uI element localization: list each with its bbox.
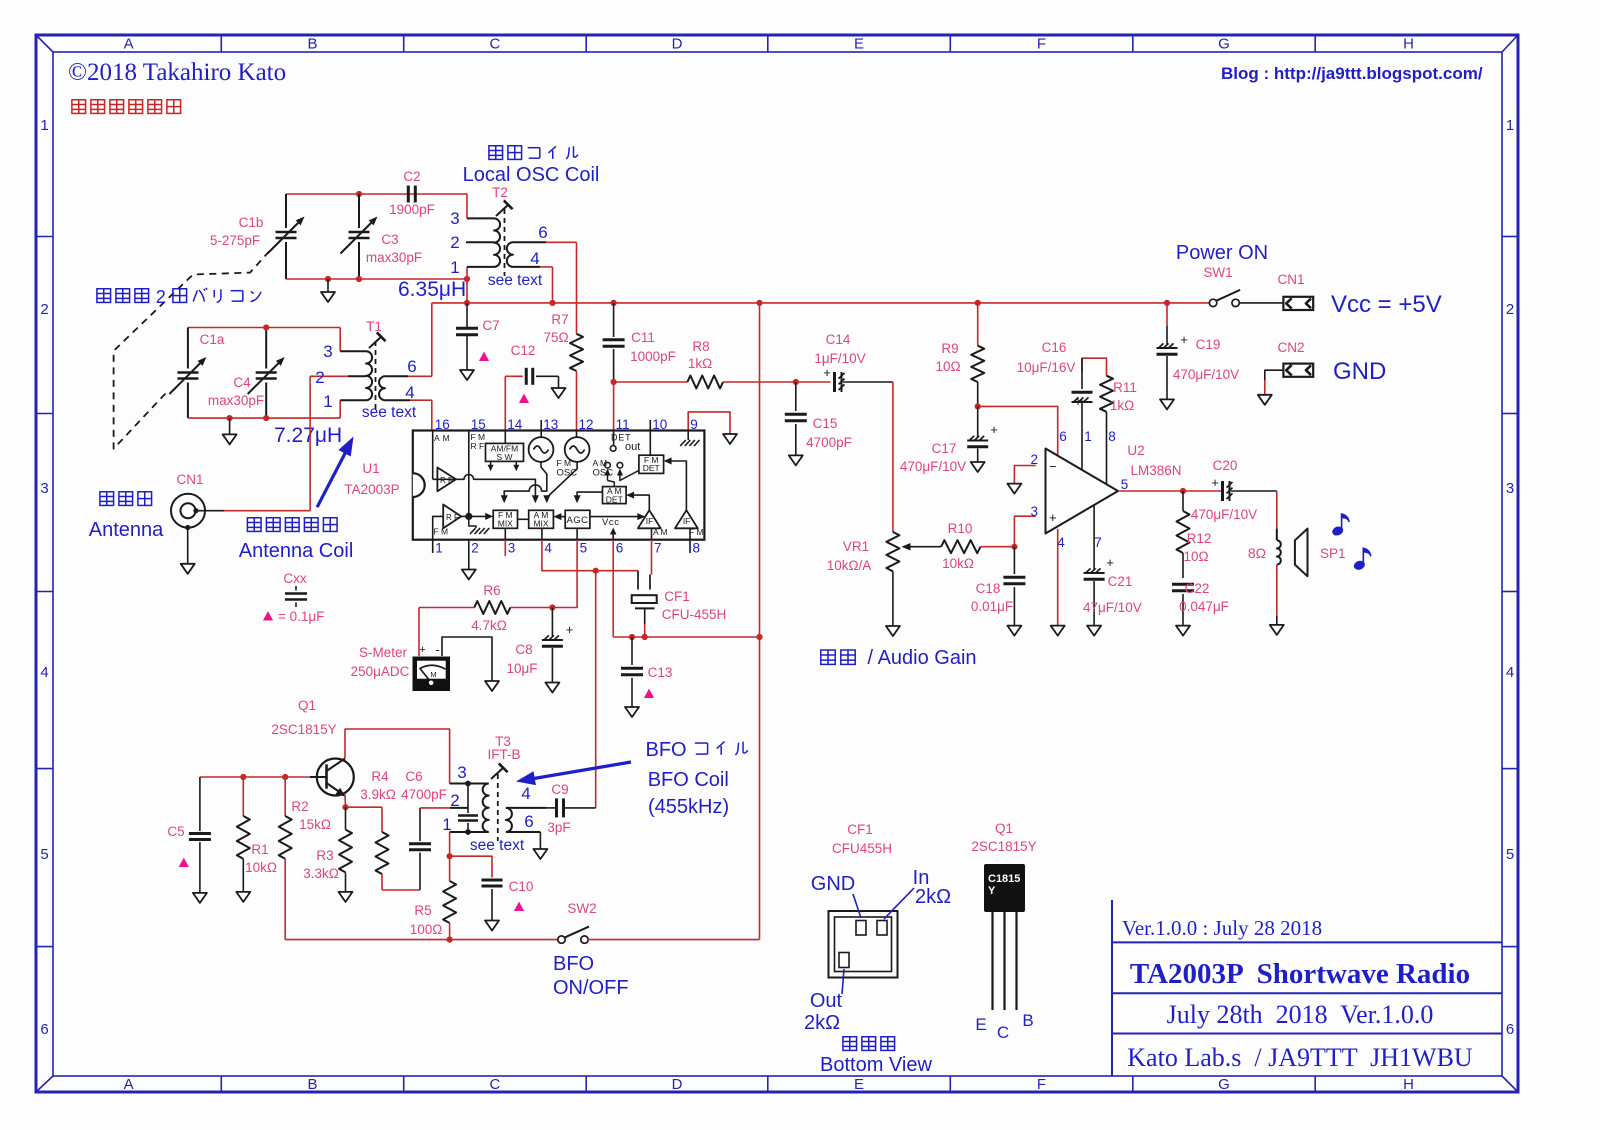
svg-text:C8: C8 <box>515 642 532 657</box>
svg-text:H: H <box>1403 1076 1414 1093</box>
wire osc tank bottom <box>286 278 467 280</box>
svg-text:3.9kΩ: 3.9kΩ <box>360 787 396 802</box>
capacitor C17 <box>900 406 998 474</box>
svg-text:R6: R6 <box>483 583 500 598</box>
svg-text:0.047μF: 0.047μF <box>1179 599 1229 614</box>
resistor R7 <box>543 312 583 431</box>
wire base rail <box>200 776 310 778</box>
svg-text:U2: U2 <box>1127 443 1144 458</box>
wire C6 to T3 tap <box>420 807 450 809</box>
svg-text:C16: C16 <box>1042 340 1067 355</box>
svg-text:R4: R4 <box>371 769 389 784</box>
svg-text:GND: GND <box>811 873 855 895</box>
svg-text:Vcc = +5V: Vcc = +5V <box>1331 291 1442 318</box>
wire antenna tank top <box>188 327 340 329</box>
potentiometer VR1 <box>827 532 941 573</box>
svg-text:VR1: VR1 <box>843 539 869 554</box>
junction rail T2pin4 <box>549 300 555 306</box>
IC pin15 internal lead <box>468 431 470 517</box>
svg-text:+: + <box>566 622 574 637</box>
junction ant tank top C4 <box>263 324 269 330</box>
wire T2 pin4 to vcc rail <box>540 266 553 268</box>
junction ant tank bottom C4 <box>263 415 269 421</box>
wire vcc branch horizontal <box>613 636 759 638</box>
CF1 bottom view diagram <box>829 822 898 978</box>
label twin variable capacitor <box>97 289 111 303</box>
ground CN2 <box>1258 395 1272 405</box>
speaker SP1 <box>1248 529 1346 577</box>
svg-text:IF: IF <box>683 516 691 526</box>
wire R2 to BFO rail <box>284 859 286 940</box>
svg-text:M: M <box>430 670 436 679</box>
capacitor C11 <box>603 303 676 382</box>
wire IC pin4 to CF1 node <box>542 540 638 571</box>
capacitor C7 <box>456 303 500 380</box>
capacitor C19 <box>1157 303 1240 410</box>
svg-text:7: 7 <box>1094 535 1102 550</box>
junction osc tank top at C3 <box>356 191 362 197</box>
svg-text:−: − <box>1049 459 1057 474</box>
svg-text:(455kHz): (455kHz) <box>648 796 729 818</box>
IC pin1 internal lead <box>433 516 444 539</box>
svg-text:2: 2 <box>40 301 48 318</box>
IC pin2 ground <box>468 540 470 570</box>
IC arrow AGC to AM MIX <box>559 516 565 518</box>
IC pin16 internal lead <box>432 431 434 480</box>
resistor R1 <box>236 777 277 902</box>
svg-text:470μF/10V: 470μF/10V <box>900 459 966 474</box>
junction R5 bottom rail <box>447 937 453 943</box>
svg-text:5: 5 <box>40 846 48 863</box>
junction emitter node <box>342 804 348 810</box>
junction vcc branch CF1 <box>642 634 648 640</box>
switch SW2 <box>558 901 597 943</box>
svg-text:10kΩ: 10kΩ <box>942 556 974 571</box>
wire T1 pin1 to tank bottom <box>339 400 341 418</box>
wire antenna to T1 pin2 <box>196 510 224 512</box>
svg-text:2: 2 <box>315 368 324 387</box>
svg-text:A: A <box>124 1076 134 1093</box>
junction pin4 node BFO feed <box>593 568 599 574</box>
IC junction FM node <box>461 515 487 517</box>
svg-text:GND: GND <box>1333 358 1386 385</box>
svg-text:10kΩ: 10kΩ <box>245 860 277 875</box>
svg-text:IFT-B: IFT-B <box>488 747 521 762</box>
IC wire FM MIX to AM MIX <box>518 518 529 520</box>
svg-text:A: A <box>124 36 134 53</box>
svg-text:6: 6 <box>524 812 533 831</box>
resistor R3 <box>303 807 352 902</box>
svg-text:TA2003P: TA2003P <box>344 482 399 497</box>
svg-text:+: + <box>823 365 831 380</box>
svg-text:G: G <box>1218 1076 1230 1093</box>
variable capacitor C1b <box>210 194 305 279</box>
IC pin13 internal lead <box>540 431 542 438</box>
svg-text:BFO: BFO <box>646 739 693 761</box>
svg-text:6: 6 <box>538 223 547 242</box>
IC pin13 stub <box>540 420 542 431</box>
ground S-meter <box>485 681 499 691</box>
wire rail left drop to T1 pin6 <box>431 303 433 376</box>
svg-text:2SC1815Y: 2SC1815Y <box>271 722 336 737</box>
IC FM OSC circle <box>529 437 554 462</box>
svg-text:R2: R2 <box>291 799 308 814</box>
svg-text:+: + <box>1049 510 1057 525</box>
svg-text:10μF: 10μF <box>506 661 537 676</box>
label Local OSC Coil <box>489 146 503 160</box>
svg-text:3: 3 <box>450 209 459 228</box>
junction rail C19 <box>1164 300 1170 306</box>
resistor R6 <box>419 583 552 633</box>
IC pin12 internal lead <box>576 431 578 438</box>
wire T3 pin1 down <box>449 832 451 856</box>
trimmer capacitor C4 <box>208 328 285 419</box>
wire C11 to IC pin11 <box>613 382 615 431</box>
svg-text:CF1: CF1 <box>847 822 873 837</box>
label antenna jp <box>100 492 114 506</box>
svg-text:3: 3 <box>1506 480 1514 497</box>
svg-text:Q1: Q1 <box>298 698 316 713</box>
junction rail R9 <box>975 300 981 306</box>
IC pin8 stub <box>689 540 691 553</box>
IC wire AM OSC to AM MIX <box>547 462 577 498</box>
IC DET out switch <box>605 431 641 487</box>
svg-text:1900pF: 1900pF <box>389 202 435 217</box>
svg-text:14: 14 <box>507 417 523 432</box>
svg-text:= 0.1μF: = 0.1μF <box>278 609 324 624</box>
svg-text:C14: C14 <box>826 332 851 347</box>
IC FM DET box <box>639 455 664 473</box>
IC U1 TA2003P body <box>413 431 705 540</box>
wire IC pin7 to CF1 <box>651 540 653 575</box>
wire U2 pin5 to C20 <box>1118 490 1222 492</box>
wire long vertical vcc branch <box>759 303 761 637</box>
svg-text:3pF: 3pF <box>547 820 570 835</box>
wire IC pin9 to ground <box>688 412 730 434</box>
junction vcc branch long vertical <box>756 634 762 640</box>
IC AGC box <box>565 510 590 528</box>
junction R6 C8 node <box>549 604 555 610</box>
svg-text:0.01μF: 0.01μF <box>971 599 1013 614</box>
IC pin8 internal lead <box>689 528 691 539</box>
svg-text:R9: R9 <box>941 341 958 356</box>
svg-text:4: 4 <box>40 664 48 681</box>
variable capacitor C1a <box>169 328 224 419</box>
svg-text:3: 3 <box>457 763 466 782</box>
svg-text:6: 6 <box>40 1021 48 1038</box>
svg-text:7.27μH: 7.27μH <box>274 424 342 447</box>
wire T1 pin4 to IC pin16 <box>410 399 432 401</box>
svg-text:/ Audio Gain: / Audio Gain <box>862 647 977 669</box>
svg-text:+: + <box>990 422 998 437</box>
IC pin3 internal lead <box>504 528 506 539</box>
svg-text:+: + <box>1180 332 1188 347</box>
music note 1 <box>1333 514 1349 535</box>
dashed gang line <box>114 251 270 449</box>
IC wire RF1 out with hops <box>433 474 536 497</box>
title block <box>1112 900 1502 1076</box>
svg-text:1μF/10V: 1μF/10V <box>814 351 865 366</box>
IC wire IF AM to AM DET <box>632 495 649 510</box>
transformer T3 <box>442 734 546 854</box>
svg-text:C22: C22 <box>1185 581 1210 596</box>
capacitor C8 <box>506 608 573 693</box>
capacitor C2 <box>389 169 435 217</box>
svg-text:E: E <box>975 1015 986 1034</box>
svg-text:R11: R11 <box>1113 380 1137 395</box>
wire C20 to speaker <box>1276 491 1278 529</box>
svg-text:B: B <box>1022 1011 1033 1030</box>
junction C15 node <box>793 379 799 385</box>
svg-text:C9: C9 <box>551 782 568 797</box>
svg-text:OSC: OSC <box>593 468 614 479</box>
junction osc tank bottom at C3 <box>356 276 362 282</box>
IC pin7 internal lead <box>651 528 653 539</box>
svg-text:1: 1 <box>40 117 48 134</box>
svg-text:10: 10 <box>652 417 667 432</box>
svg-text:4700pF: 4700pF <box>401 787 447 802</box>
wire node to C10 <box>450 856 492 877</box>
svg-text:T2: T2 <box>492 185 508 200</box>
svg-text:15kΩ: 15kΩ <box>299 817 331 832</box>
svg-text:R F: R F <box>446 513 459 522</box>
capacitor C14 <box>796 332 893 392</box>
svg-text:1000pF: 1000pF <box>630 349 676 364</box>
svg-text:C3: C3 <box>381 232 398 247</box>
junction ant tank bottom gnd <box>227 415 233 421</box>
svg-text:C13: C13 <box>648 665 673 680</box>
svg-text:BFO: BFO <box>553 953 594 975</box>
svg-text:Y: Y <box>988 885 996 897</box>
svg-text:1: 1 <box>323 392 332 411</box>
svg-text:R F: R F <box>471 441 485 451</box>
svg-text:A M: A M <box>653 527 668 537</box>
svg-text:R5: R5 <box>414 903 431 918</box>
no-reproduction kanji note <box>72 100 86 114</box>
junction tank bottom right <box>464 276 470 282</box>
svg-text:TA2003P Shortwave Radio: TA2003P Shortwave Radio <box>1130 958 1470 990</box>
wire IC pin6 to vcc branch <box>612 540 614 637</box>
svg-text:1: 1 <box>1084 429 1092 444</box>
svg-text:4: 4 <box>544 541 552 556</box>
svg-text:R1: R1 <box>251 842 268 857</box>
svg-text:8Ω: 8Ω <box>1248 545 1266 561</box>
connector CN1 antenna jack <box>171 472 205 530</box>
junction base R2 <box>282 774 288 780</box>
svg-text:11: 11 <box>616 417 630 432</box>
svg-text:2SC1815Y: 2SC1815Y <box>971 839 1036 854</box>
svg-text:10μF/16V: 10μF/16V <box>1017 360 1076 375</box>
svg-text:Bottom View: Bottom View <box>820 1054 932 1076</box>
capacitor C10 <box>482 879 534 931</box>
op-amp U2 LM386N <box>1031 429 1182 550</box>
svg-text:Ver.1.0.0 : July 28 2018: Ver.1.0.0 : July 28 2018 <box>1122 916 1322 940</box>
ground speaker <box>1270 625 1284 635</box>
svg-text:470μF/10V: 470μF/10V <box>1173 367 1239 382</box>
svg-text:470μF/10V: 470μF/10V <box>1191 507 1257 522</box>
svg-text:C18: C18 <box>976 581 1001 596</box>
svg-text:1: 1 <box>450 258 459 277</box>
IC IF AM triangle <box>638 510 661 528</box>
trimmer capacitor C3 <box>341 194 423 279</box>
ground osc tank <box>327 279 329 292</box>
wire osc tank top <box>286 193 467 195</box>
wire R9 node to U2 pin6 <box>978 406 1058 455</box>
svg-text:©2018 Takahiro Kato: ©2018 Takahiro Kato <box>68 59 286 86</box>
svg-text:12: 12 <box>579 417 594 432</box>
svg-text:C5: C5 <box>167 824 184 839</box>
IC wire FM OSC to FM MIX <box>504 462 547 497</box>
wire R6 to S-meter <box>418 608 420 657</box>
svg-text:C7: C7 <box>482 318 499 333</box>
svg-text:10Ω: 10Ω <box>935 359 960 374</box>
capacitor C18 <box>971 547 1026 636</box>
svg-text:A M: A M <box>434 433 450 443</box>
wire IC pin5 to R6 node <box>552 540 577 608</box>
IC pin2 internal ground <box>469 516 476 528</box>
svg-text:1kΩ: 1kΩ <box>1110 398 1134 413</box>
resistor R10 <box>941 521 1014 571</box>
svg-text:4: 4 <box>1506 664 1514 681</box>
junction T3 pin3 <box>465 781 471 787</box>
wire VR1 to ground <box>892 571 894 626</box>
svg-text:6.35μH: 6.35μH <box>398 278 466 301</box>
wire vcc rail <box>432 302 1212 304</box>
svg-text:G: G <box>1218 36 1230 53</box>
svg-text:CF1: CF1 <box>664 589 690 604</box>
svg-text:1: 1 <box>435 541 443 556</box>
junction base R1 <box>240 774 246 780</box>
svg-text:C2: C2 <box>403 169 420 184</box>
svg-text:see text: see text <box>470 837 525 854</box>
svg-text:5: 5 <box>580 541 588 556</box>
svg-text:C21: C21 <box>1108 574 1133 589</box>
wire pin4 node down to C9 <box>595 571 597 808</box>
transformer T1 <box>310 319 432 421</box>
svg-text:B: B <box>307 36 317 53</box>
svg-text:C19: C19 <box>1196 337 1221 352</box>
capacitor C12 <box>505 343 565 431</box>
svg-text:max30pF: max30pF <box>208 393 264 408</box>
wire speaker to ground <box>1276 565 1278 616</box>
svg-text:2: 2 <box>471 541 479 556</box>
svg-text:C15: C15 <box>813 416 838 431</box>
capacitor Cxx note <box>263 571 325 624</box>
svg-text:2: 2 <box>1506 301 1514 318</box>
svg-text:max30pF: max30pF <box>366 250 422 265</box>
svg-text:1kΩ: 1kΩ <box>688 356 712 371</box>
svg-text:E: E <box>854 1076 864 1093</box>
svg-text:C: C <box>489 1076 500 1093</box>
svg-text:C6: C6 <box>405 769 422 784</box>
svg-text:IF: IF <box>646 516 654 526</box>
label BFO coil <box>646 739 748 818</box>
svg-text:Cxx: Cxx <box>283 571 306 586</box>
svg-text:R F: R F <box>440 476 453 485</box>
svg-text:10Ω: 10Ω <box>1183 549 1208 564</box>
svg-text:2: 2 <box>450 233 459 252</box>
ground antenna tank <box>229 418 231 434</box>
svg-text:D: D <box>672 1076 683 1093</box>
IC AM DET box <box>603 487 627 504</box>
label bottom view <box>843 1037 857 1051</box>
svg-text:C17: C17 <box>932 441 957 456</box>
wire T2 pin6 to R7 <box>546 241 577 243</box>
svg-text:+: + <box>1211 475 1219 490</box>
ground U2 pin2 <box>1007 484 1021 494</box>
wire U2 pin2 ground <box>1014 466 1035 484</box>
svg-text:AGC: AGC <box>566 515 588 526</box>
IC pin1 stub <box>432 540 434 553</box>
junction vcc branch C13 <box>629 634 635 640</box>
svg-text:Kato Lab.s / JA9TTT JH1WBU: Kato Lab.s / JA9TTT JH1WBU <box>1127 1043 1473 1072</box>
svg-text:H: H <box>1403 36 1414 53</box>
junction rail C11 <box>611 300 617 306</box>
transformer T2 <box>450 185 547 289</box>
svg-text:2: 2 <box>156 287 166 307</box>
svg-text:ON/OFF: ON/OFF <box>553 977 629 999</box>
resistor R5 <box>410 856 456 939</box>
IC wire IF FM to FM DET <box>669 461 686 510</box>
svg-text:T1: T1 <box>366 319 382 334</box>
svg-text:9: 9 <box>690 417 698 432</box>
wire to U2 pin3 <box>1014 516 1035 547</box>
svg-text:B: B <box>307 1076 317 1093</box>
svg-text:Blog : http://ja9ttt.blogspot.: Blog : http://ja9ttt.blogspot.com/ <box>1221 64 1483 83</box>
wire antenna tank bottom <box>188 417 340 419</box>
music note 2 <box>1355 548 1371 569</box>
svg-text:3: 3 <box>1031 504 1039 519</box>
junction rail C7 <box>464 300 470 306</box>
IC wire AM DET to AGC <box>577 492 602 497</box>
resistor R2 <box>279 777 331 859</box>
svg-text:BFO Coil: BFO Coil <box>648 769 729 791</box>
svg-text:4700pF: 4700pF <box>806 435 852 450</box>
wire BFO bottom rail <box>285 939 558 941</box>
svg-text:SW2: SW2 <box>567 901 596 916</box>
ground U2 pin4 <box>1051 626 1065 636</box>
T3 internal capacitor <box>458 784 478 833</box>
capacitor C20 <box>1191 458 1277 522</box>
svg-text:3: 3 <box>323 342 332 361</box>
capacitor C9 <box>546 782 596 835</box>
svg-text:SP1: SP1 <box>1320 546 1346 561</box>
svg-text:C1a: C1a <box>200 332 225 347</box>
svg-text:S-Meter: S-Meter <box>359 645 408 660</box>
svg-text:F M: F M <box>689 527 704 537</box>
svg-text:see text: see text <box>362 404 417 421</box>
svg-text:U1: U1 <box>362 461 379 476</box>
svg-text:4: 4 <box>405 383 414 402</box>
ground VR1 <box>886 626 900 636</box>
wire T3 pin6 ground <box>539 832 541 849</box>
wire SW2 to vcc branch <box>588 939 759 941</box>
svg-text:4: 4 <box>530 249 539 268</box>
IC RF amp AM <box>437 468 456 492</box>
svg-text:250μADC: 250μADC <box>351 664 410 679</box>
svg-text:C1815: C1815 <box>988 873 1020 885</box>
ground pin9 <box>723 434 737 444</box>
IC AM MIX box <box>529 510 554 528</box>
svg-text:out: out <box>625 441 640 453</box>
svg-text:8: 8 <box>693 541 701 556</box>
svg-text:Q1: Q1 <box>995 821 1013 836</box>
svg-text:DET: DET <box>606 494 623 504</box>
svg-text:OSC: OSC <box>557 468 578 479</box>
junction R10 C18 pin3 <box>1011 544 1017 550</box>
ground T3 pin6 <box>533 849 547 859</box>
svg-text:CN1: CN1 <box>1277 272 1304 287</box>
